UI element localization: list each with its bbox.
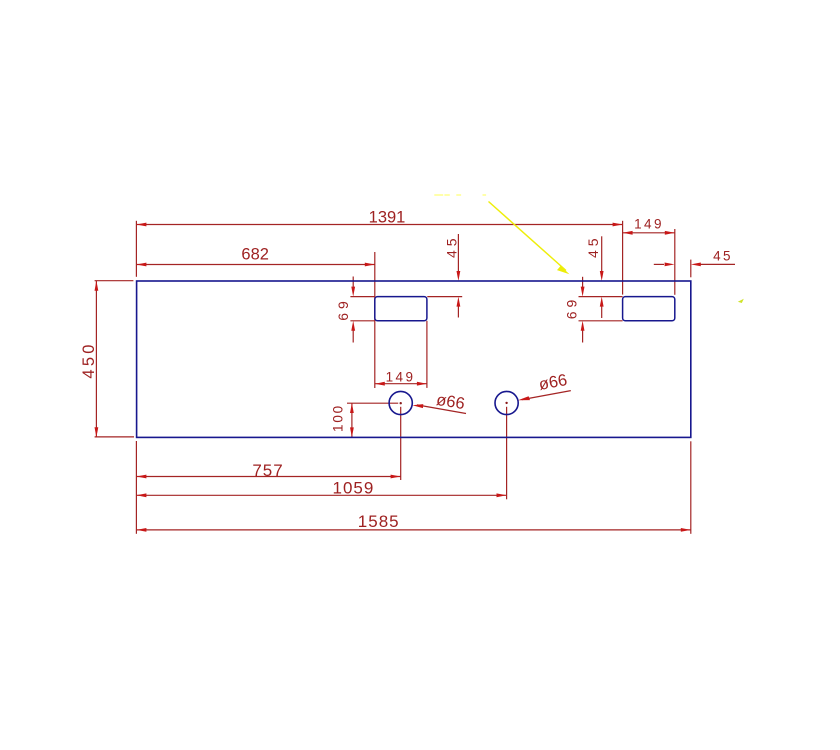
hole 2 bbox=[495, 391, 518, 414]
hole 1 centerline vertical bbox=[400, 407, 402, 480]
dim 45 top-right left tail bbox=[654, 263, 664, 265]
dim 69 right-slot dimension line lower bbox=[582, 330, 584, 343]
arrow 149bottom left bbox=[375, 382, 385, 386]
arrow 69left bottom bbox=[351, 321, 355, 331]
yellow annotation group bbox=[434, 195, 744, 303]
dim 1391 dimension line bbox=[136, 224, 622, 226]
arrow 682 left bbox=[136, 263, 146, 267]
dim 45 left-slot extension line bbox=[427, 296, 462, 298]
slot left bbox=[375, 297, 427, 321]
arrow 1059 right bbox=[497, 493, 507, 497]
dim 69 left-slot extension bottom bbox=[350, 320, 374, 322]
svg-text:45: 45 bbox=[443, 234, 459, 258]
dim 450 dimension line bbox=[95, 281, 97, 438]
arrow 1391 right bbox=[613, 223, 623, 227]
dim 45 left-slot dimension line upper bbox=[457, 234, 459, 271]
arrow 100 top bbox=[350, 403, 354, 413]
dim 149 bottom dimension line bbox=[375, 383, 427, 385]
dim 149 bottom extension line right bbox=[426, 321, 428, 388]
arrow 45right bottom bbox=[600, 297, 604, 307]
arrow 45topright left (outside, tip right) bbox=[665, 263, 675, 267]
arrow 69right top bbox=[581, 287, 585, 297]
svg-text:45: 45 bbox=[713, 249, 733, 264]
arrow 757 left bbox=[136, 475, 146, 479]
dim 1059 dimension line bbox=[136, 494, 506, 496]
hole 1 bbox=[389, 391, 412, 414]
arrow 450 top bbox=[95, 281, 99, 291]
arrow leader1 bbox=[412, 404, 423, 408]
dim 100 dimension line bbox=[351, 403, 353, 437]
dim 149 top extension line right bbox=[674, 229, 676, 295]
dim 69 right-slot extension bottom bbox=[579, 320, 623, 322]
arrow 1585 right bbox=[681, 528, 691, 532]
svg-text:1391: 1391 bbox=[369, 209, 406, 227]
dim 69 left-slot dimension line lower bbox=[352, 330, 354, 343]
arrow 45right top bbox=[600, 271, 604, 281]
arrow 45topright right (outside, tip left) bbox=[691, 263, 701, 267]
arrow 757 right bbox=[391, 475, 401, 479]
dim 450 extension bottom bbox=[95, 436, 134, 438]
dim 69 right-slot extension top bbox=[579, 296, 623, 298]
arrow 100 bottom bbox=[350, 427, 354, 437]
dimension texts bbox=[80, 209, 733, 532]
arrow 45left top (tip at plate top, pointing down) bbox=[457, 271, 461, 281]
svg-text:45: 45 bbox=[585, 234, 601, 258]
dim 682 dimension line bbox=[136, 264, 374, 266]
arrow 69left top bbox=[351, 287, 355, 297]
plate and features (blue) bbox=[137, 281, 691, 437]
arrow 450 bottom bbox=[95, 427, 99, 437]
yellow dashed reference line bbox=[434, 194, 486, 196]
yellow arrow line bbox=[489, 202, 567, 271]
arrow 149top right bbox=[665, 231, 675, 235]
plate outline bbox=[137, 281, 691, 437]
dim 757 dimension line bbox=[136, 476, 400, 478]
dim 100 extension line bbox=[347, 402, 398, 404]
leader 2 line bbox=[522, 391, 571, 400]
arrow 149top left bbox=[623, 231, 633, 235]
dim 1391 extension line left bbox=[135, 221, 137, 277]
dim 45 left-slot dimension line lower bbox=[457, 306, 459, 318]
arrow leader2 bbox=[518, 396, 530, 400]
arrowheads bbox=[95, 223, 701, 532]
hole 2 center dot bbox=[505, 402, 507, 404]
dim 45 right-slot dimension line lower bbox=[601, 306, 603, 318]
svg-text:149: 149 bbox=[634, 217, 664, 232]
svg-text:682: 682 bbox=[241, 246, 269, 264]
yellow-green mark bbox=[738, 299, 744, 303]
hole center dots bbox=[400, 402, 508, 405]
svg-text:1059: 1059 bbox=[332, 478, 374, 497]
arrow 45left bottom (tip at slot top, pointing up) bbox=[457, 297, 461, 307]
bottom dims extension line left bbox=[135, 441, 137, 534]
dim 69 right-slot dimension line upper bbox=[582, 277, 584, 287]
svg-text:450: 450 bbox=[80, 341, 98, 378]
hole 1 center dot bbox=[400, 402, 402, 404]
dim 69 left-slot extension top bbox=[350, 296, 374, 298]
bottom dims extension line right bbox=[690, 441, 692, 534]
dim 45 top-right right tail bbox=[700, 263, 735, 265]
yellow arrowhead bbox=[557, 266, 570, 274]
dim 450 extension top bbox=[95, 280, 134, 282]
arrow 149bottom right bbox=[417, 382, 427, 386]
dim 149 top dimension line bbox=[623, 232, 675, 234]
dim 682 extension line right bbox=[374, 252, 376, 388]
arrow 1391 left bbox=[136, 223, 146, 227]
arrow 69right bottom bbox=[581, 321, 585, 331]
arrow 1585 left bbox=[136, 528, 146, 532]
slot right bbox=[623, 297, 675, 321]
dim 1585 dimension line bbox=[136, 529, 690, 531]
svg-text:69: 69 bbox=[563, 296, 579, 320]
dim 45 top-right extension line bbox=[690, 260, 692, 278]
svg-text:1585: 1585 bbox=[358, 512, 400, 531]
arrow 1059 left bbox=[136, 493, 146, 497]
dim 69 left-slot dimension line upper bbox=[352, 277, 354, 288]
svg-text:100: 100 bbox=[331, 404, 346, 432]
svg-text:69: 69 bbox=[335, 297, 351, 321]
hole 2 centerline vertical bbox=[506, 407, 508, 500]
svg-text:757: 757 bbox=[252, 461, 283, 480]
dim 1391 extension line right (slot left edge) bbox=[622, 221, 624, 295]
arrow 682 right bbox=[365, 263, 375, 267]
dim 45 right-slot dimension line upper bbox=[601, 236, 603, 271]
leader 1 line bbox=[417, 405, 466, 414]
svg-text:149: 149 bbox=[386, 369, 416, 384]
